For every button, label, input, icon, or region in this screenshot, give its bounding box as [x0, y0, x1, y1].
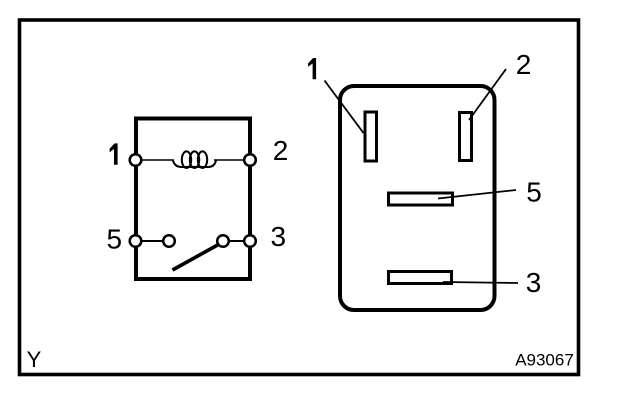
svg-text:3: 3	[271, 221, 287, 252]
leader line pin 5	[438, 190, 516, 199]
coil L1	[173, 151, 216, 168]
leader line pin 2	[469, 69, 506, 120]
svg-text:2: 2	[273, 135, 289, 166]
pin slot 1	[365, 112, 377, 161]
switch arm S1	[173, 245, 219, 271]
relay K1 outline	[136, 119, 250, 280]
svg-text:3: 3	[526, 267, 542, 298]
pin label 5 (schematic)	[107, 224, 123, 255]
svg-text:5: 5	[107, 224, 123, 255]
pin label 2 (connector)	[516, 49, 532, 80]
pin 3 terminal	[244, 235, 256, 247]
svg-text:5: 5	[526, 177, 542, 208]
leader line pin 1	[325, 81, 364, 134]
figure key label Y	[27, 347, 42, 372]
svg-text:2: 2	[516, 49, 532, 80]
connector housing J1	[340, 86, 495, 310]
pin label 3 (connector)	[526, 267, 542, 298]
pin slot 5	[389, 193, 453, 205]
svg-text:A93067: A93067	[515, 351, 574, 370]
pin slot 3	[389, 272, 452, 284]
wire contact to pin3	[227, 240, 245, 242]
contact node b (switch throw)	[217, 235, 229, 247]
contact node a (switch fixed)	[163, 235, 175, 247]
pin label 3 (schematic)	[271, 221, 287, 252]
wire pin1 to coil	[141, 159, 174, 161]
pin 1 terminal	[130, 154, 142, 166]
pin slot 2	[460, 113, 472, 161]
pin label 1 (schematic)	[110, 143, 118, 164]
pin label 5 (connector)	[526, 177, 542, 208]
pin 2 terminal	[244, 154, 256, 166]
pin 5 terminal	[130, 235, 142, 247]
svg-text:Y: Y	[27, 347, 42, 372]
wire pin5 to contact	[141, 240, 165, 242]
pin label 2 (schematic)	[273, 135, 289, 166]
pin label 1 (connector)	[308, 58, 316, 79]
leader line pin 3	[443, 282, 518, 283]
drawing number A93067	[515, 351, 574, 370]
wire coil to pin2	[214, 159, 245, 161]
